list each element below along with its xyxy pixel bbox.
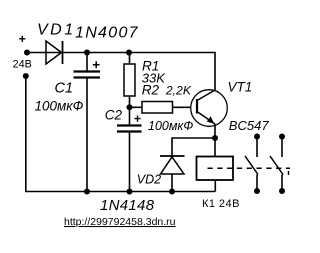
capacitor C2 [117, 107, 142, 191]
label: + (input) [19, 36, 25, 42]
svg-text:К1 24В: К1 24В [202, 198, 240, 210]
svg-text:24В: 24В [13, 58, 32, 70]
terminal: input positive [24, 50, 30, 56]
relay contact K1.1 [245, 134, 260, 195]
capacitor C1 [74, 53, 101, 192]
junction: C1 top [84, 50, 90, 56]
transistor VT1 [191, 90, 228, 138]
svg-text:BC547: BC547 [229, 118, 270, 133]
diode VD1 [46, 41, 63, 64]
wire: emitter node down to relay coil [214, 138, 216, 157]
svg-text:100мкФ: 100мкФ [35, 99, 84, 114]
svg-text:1N4148: 1N4148 [100, 197, 155, 214]
junction: C2 bottom on rail [127, 189, 133, 195]
junction: R1 top [126, 50, 132, 56]
wire: emitter node to VD2 top [172, 138, 215, 156]
relay contact K1.2 [270, 134, 285, 195]
svg-text:100мкФ: 100мкФ [148, 119, 193, 133]
svg-text:1N4007: 1N4007 [75, 25, 139, 42]
terminal: input negative [23, 73, 29, 79]
resistor R1 [124, 53, 135, 108]
diode VD2 [160, 156, 185, 192]
svg-text:VT1: VT1 [228, 80, 253, 95]
resistor R2 [130, 102, 191, 114]
junction: VD2 bottom on rail [169, 189, 175, 195]
svg-text:C1: C1 [55, 80, 74, 96]
svg-text:2,2K: 2,2K [165, 84, 192, 98]
svg-text:R2: R2 [142, 83, 160, 98]
svg-text:http://299792458.3dn.ru: http://299792458.3dn.ru [64, 216, 176, 228]
mechanical linkage (dashed) [208, 168, 291, 175]
junction: C1 bottom on rail [84, 189, 90, 195]
wire: top rail from input to collector corner [27, 53, 215, 91]
svg-text:C2: C2 [105, 108, 123, 123]
junction: R1/R2/C2 node [127, 104, 133, 110]
junction: emitter node [212, 135, 218, 141]
wire: left return (negative) down to bottom rail [26, 76, 216, 192]
svg-text:VD2: VD2 [137, 173, 161, 187]
relay coil K1 [197, 157, 234, 192]
svg-text:VD1: VD1 [37, 22, 76, 39]
